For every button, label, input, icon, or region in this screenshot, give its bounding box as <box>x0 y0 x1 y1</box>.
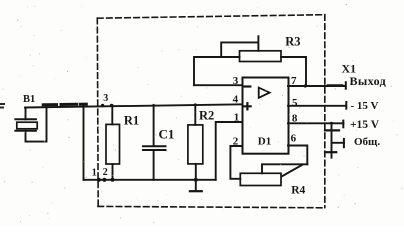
junction R1 bottom dot <box>111 178 115 182</box>
ground bar below R2 <box>190 190 202 192</box>
transducer B1 bottom plate <box>15 130 36 132</box>
label R3 <box>285 35 300 49</box>
wire: R1 top lead <box>111 105 113 124</box>
wire: common terminal branch <box>332 142 345 144</box>
wire: R3 right side to output node <box>281 57 306 86</box>
junction pin1 dot on rail <box>97 178 101 182</box>
pin 3 number <box>233 75 239 87</box>
dashed enclosure box <box>97 15 324 208</box>
wire: shield return drop to common rail <box>83 106 85 180</box>
svg-text:R1: R1 <box>124 113 139 127</box>
svg-text:3: 3 <box>103 93 108 104</box>
svg-text:C1: C1 <box>159 127 175 142</box>
svg-text:7: 7 <box>291 75 297 87</box>
terminal tick X1 output <box>345 82 347 89</box>
wire: common drop from +15V wire <box>331 124 333 158</box>
resistor R2 body <box>188 125 203 164</box>
pin 6 number <box>291 132 297 144</box>
wire: R3 wiper tap loop <box>221 36 258 57</box>
transducer B1 top lead <box>25 108 27 120</box>
capacitor C1 bottom lead <box>153 150 155 180</box>
svg-text:+15 V: +15 V <box>350 119 380 131</box>
wire: pin 6 lead <box>288 146 307 165</box>
junction node 3 dot b (R1 top) <box>110 104 113 107</box>
label R1 <box>124 113 139 127</box>
-15V label <box>351 100 379 112</box>
label R4 <box>291 184 305 196</box>
wire: feedback riser from pin3 up to R3 <box>194 57 240 85</box>
output label <box>350 74 387 88</box>
minus sign pin 3 input <box>244 85 250 87</box>
wire: pin 8 lead (+15V) <box>288 122 344 124</box>
junction +15V drop dot <box>330 122 333 125</box>
wire: R4 tap line <box>262 164 307 173</box>
label D1 <box>258 135 271 147</box>
crossbar lower on common drop <box>326 151 337 153</box>
resistor R3 body <box>240 51 282 62</box>
wire: diagonal to R4 right end <box>282 165 303 177</box>
svg-text:4: 4 <box>233 94 239 106</box>
svg-text:1: 1 <box>92 167 97 178</box>
svg-text:B1: B1 <box>23 94 35 105</box>
svg-text:2: 2 <box>103 167 108 178</box>
pin 1 number <box>234 112 240 124</box>
svg-text:1: 1 <box>234 112 240 124</box>
pin 8 number <box>292 113 298 125</box>
junction pin2 dot on rail <box>102 178 106 182</box>
svg-text:2: 2 <box>233 136 239 148</box>
pin 4 number <box>233 94 239 106</box>
terminal tick +15V <box>342 121 344 128</box>
resistor R4 body <box>240 173 281 185</box>
op-amp triangle symbol <box>259 88 270 98</box>
svg-text:R3: R3 <box>285 35 300 49</box>
svg-text:R2: R2 <box>199 109 214 123</box>
terminal tick -15V <box>345 102 347 109</box>
wire: R2 bottom lead <box>195 164 197 191</box>
svg-text:5: 5 <box>292 97 298 109</box>
svg-text:6: 6 <box>291 132 297 144</box>
crossbar upper on common drop <box>325 129 339 131</box>
label C1 <box>159 127 175 142</box>
label B1 <box>23 94 35 105</box>
node 3 label <box>103 93 108 104</box>
svg-text:- 15 V: - 15 V <box>351 100 379 112</box>
wire: shielded-pair second conductor dashes <box>43 103 86 107</box>
svg-text:8: 8 <box>292 113 298 125</box>
label R2 <box>199 109 214 123</box>
junction R2 bottom dot <box>194 178 198 182</box>
svg-text:Выход: Выход <box>350 74 387 88</box>
wire: pin 1 lead to common rail <box>216 122 243 180</box>
junction node 3 dot a <box>101 104 104 107</box>
transducer B1 crystal body <box>17 122 37 129</box>
wire: B1 bottom lead loop <box>26 107 47 142</box>
connector X1 label <box>342 62 357 76</box>
capacitor C1 top lead <box>153 105 155 146</box>
svg-text:R4: R4 <box>291 184 305 196</box>
op-amp D1 body <box>243 78 289 154</box>
junction R2 top dot <box>194 103 197 106</box>
junction feedback-output dot <box>304 84 307 87</box>
terminal tick common <box>343 139 345 147</box>
pin 5 number <box>292 97 298 109</box>
plus sign pin 4 input <box>244 103 250 109</box>
+15V label <box>350 119 380 131</box>
wire: pin 2 lead down <box>230 146 242 179</box>
wire: main input line from B1 to pin 4 <box>25 104 243 107</box>
resistor R1 body <box>106 124 120 164</box>
pin 2 number <box>233 136 239 148</box>
node 2 label <box>103 167 108 178</box>
pin 7 number <box>291 75 297 87</box>
wire: pin 3 lead <box>194 84 243 86</box>
svg-text:3: 3 <box>233 75 239 87</box>
wire: common rail <box>84 179 216 181</box>
scan artifact left edge tick <box>0 104 5 108</box>
wire: pin 7 output lead <box>288 85 345 87</box>
thick connector stub on output lead <box>328 84 342 87</box>
svg-text:Общ.: Общ. <box>354 136 380 148</box>
wire: pin 5 lead (-15V) <box>288 105 346 107</box>
svg-text:D1: D1 <box>258 135 271 147</box>
wire: R2 top lead <box>194 105 196 125</box>
common label <box>354 136 380 148</box>
wire: R1 bottom lead <box>112 164 114 180</box>
transducer B1 top plate <box>15 118 36 120</box>
capacitor C1 plates <box>143 146 166 150</box>
node 1 label <box>92 167 97 178</box>
